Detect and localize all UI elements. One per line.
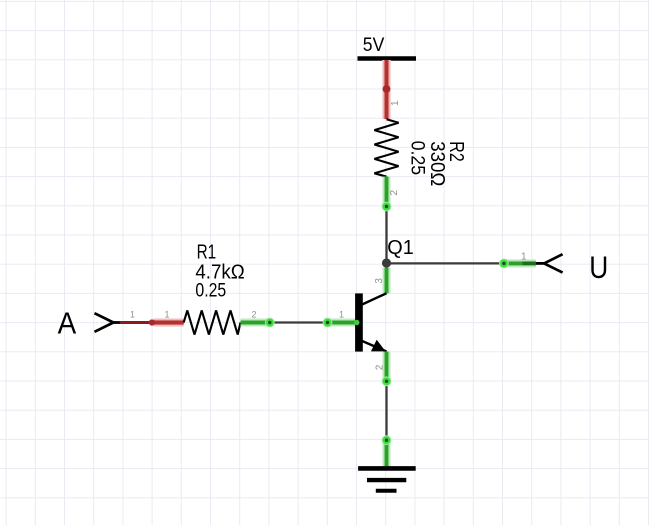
svg-text:5V: 5V	[363, 35, 385, 56]
svg-text:0.25: 0.25	[195, 280, 226, 301]
svg-text:U: U	[589, 249, 608, 285]
svg-text:2: 2	[252, 310, 257, 320]
svg-text:1: 1	[521, 252, 527, 263]
svg-text:A: A	[58, 305, 77, 340]
svg-text:R1: R1	[197, 241, 217, 263]
svg-text:330Ω: 330Ω	[426, 141, 448, 186]
svg-text:3: 3	[374, 278, 385, 284]
svg-text:2: 2	[374, 364, 385, 370]
svg-text:0.25: 0.25	[406, 141, 427, 176]
svg-text:1: 1	[130, 309, 135, 319]
svg-text:Q1: Q1	[387, 237, 414, 259]
svg-text:1: 1	[339, 309, 344, 319]
svg-text:2: 2	[389, 190, 400, 196]
svg-text:1: 1	[165, 309, 170, 319]
svg-text:1: 1	[390, 100, 401, 106]
